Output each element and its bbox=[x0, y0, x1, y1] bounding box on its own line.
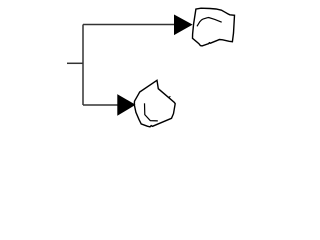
node: bottom cloud small spur on right slant bbox=[169, 96, 171, 97]
wire: input stub bbox=[67, 62, 83, 64]
wire: bottom branch bbox=[83, 104, 118, 106]
node: top cloud inner arc bbox=[197, 18, 222, 27]
node: bottom cloud inner arc bbox=[145, 103, 158, 121]
node: bottom cloud outline bbox=[134, 80, 175, 127]
node: top cloud small spur on lower edge bbox=[209, 43, 210, 44]
wire: vertical bus bbox=[82, 25, 84, 106]
node: top cloud outline bbox=[193, 8, 235, 46]
arrowhead: bottom branch bbox=[118, 95, 135, 115]
wire: top branch bbox=[83, 24, 175, 26]
arrowhead: top branch bbox=[175, 15, 192, 34]
